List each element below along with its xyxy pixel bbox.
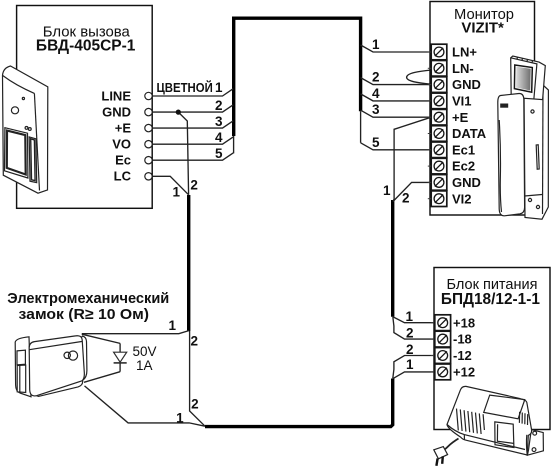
svg-text:1: 1 — [215, 80, 223, 95]
svg-text:4: 4 — [215, 130, 223, 145]
svg-text:2: 2 — [215, 98, 223, 113]
svg-text:GND: GND — [452, 77, 481, 92]
svg-text:VO: VO — [112, 137, 131, 152]
svg-text:2: 2 — [406, 342, 414, 357]
svg-text:2: 2 — [191, 396, 199, 411]
svg-text:ЦВЕТНОЙ: ЦВЕТНОЙ — [157, 80, 213, 95]
svg-text:VI2: VI2 — [452, 191, 472, 206]
svg-text:GND: GND — [452, 175, 481, 190]
svg-text:Ec2: Ec2 — [452, 159, 475, 174]
svg-text:БВД-405СР-1: БВД-405СР-1 — [36, 37, 136, 54]
svg-text:2: 2 — [191, 333, 199, 348]
svg-text:-12: -12 — [453, 348, 472, 363]
svg-text:5: 5 — [215, 146, 223, 161]
svg-text:1: 1 — [383, 183, 391, 198]
svg-text:1: 1 — [406, 309, 414, 324]
svg-text:LN+: LN+ — [452, 45, 477, 60]
svg-text:DATA: DATA — [452, 126, 487, 141]
svg-text:VI1: VI1 — [452, 94, 472, 109]
svg-text:2: 2 — [190, 178, 198, 193]
svg-text:Ec1: Ec1 — [452, 142, 475, 157]
svg-text:LN-: LN- — [452, 61, 474, 76]
svg-text:1: 1 — [406, 357, 414, 372]
svg-text:1: 1 — [168, 318, 176, 333]
svg-text:2: 2 — [402, 191, 410, 206]
svg-text:1: 1 — [172, 185, 180, 200]
svg-text:замок (R≥ 10 Ом): замок (R≥ 10 Ом) — [19, 306, 150, 323]
svg-text:5: 5 — [372, 135, 380, 150]
svg-text:+18: +18 — [453, 315, 475, 330]
svg-text:2: 2 — [406, 326, 414, 341]
svg-text:2: 2 — [372, 70, 380, 85]
svg-text:4: 4 — [372, 86, 380, 101]
svg-text:+E: +E — [452, 110, 469, 125]
svg-text:1: 1 — [176, 411, 184, 426]
svg-text:+E: +E — [115, 121, 132, 136]
svg-text:LC: LC — [114, 169, 132, 184]
svg-text:1А: 1А — [136, 358, 153, 373]
svg-text:VIZIT*: VIZIT* — [461, 19, 504, 36]
svg-text:GND: GND — [102, 105, 131, 120]
svg-text:-18: -18 — [453, 332, 472, 347]
svg-text:Ec: Ec — [115, 153, 131, 168]
svg-text:БПД18/12-1-1: БПД18/12-1-1 — [441, 291, 540, 308]
svg-text:3: 3 — [215, 114, 223, 129]
svg-text:LINE: LINE — [101, 88, 131, 103]
svg-text:1: 1 — [372, 37, 380, 52]
svg-text:+12: +12 — [453, 365, 475, 380]
svg-text:3: 3 — [372, 102, 380, 117]
svg-text:Электромеханический: Электромеханический — [7, 290, 169, 307]
